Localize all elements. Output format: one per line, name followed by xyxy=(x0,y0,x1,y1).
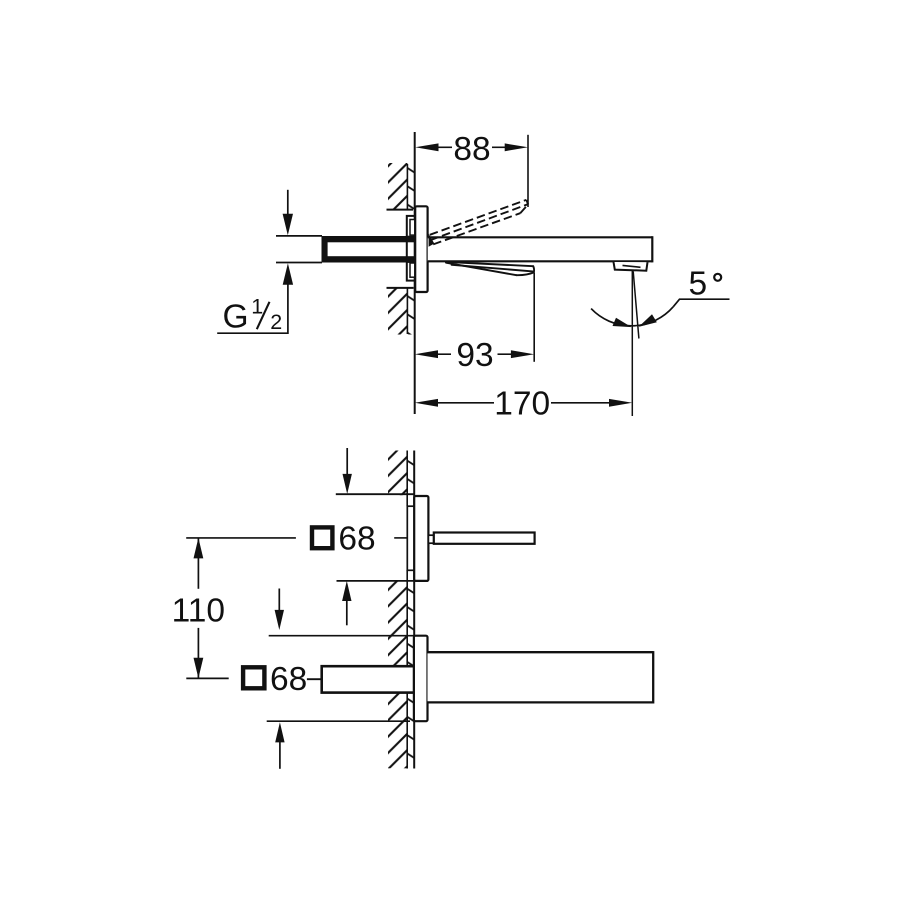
mixer lever stem xyxy=(428,535,433,543)
small arrow above spout plate xyxy=(278,589,280,611)
110 arrows xyxy=(194,538,204,559)
wall inner line sections xyxy=(406,451,408,769)
small arrow above mixer plate xyxy=(346,448,348,475)
handle raised position (dashed) xyxy=(430,200,528,245)
reference line top of spout plate xyxy=(269,635,414,637)
small arrow below spout plate xyxy=(275,722,284,742)
handle lowered position (solid) xyxy=(446,262,534,275)
wall hatch upper section xyxy=(388,163,415,210)
spout body (plan view) xyxy=(428,651,654,703)
wall hatch section B xyxy=(388,581,414,665)
square symbol spout xyxy=(243,667,264,688)
wall hatch lower section xyxy=(388,288,415,335)
G1/2 lower arrow with leader xyxy=(283,263,293,284)
dim 93 arrows xyxy=(415,350,438,358)
reference line bottom of spout plate xyxy=(267,720,410,722)
dim 88 line xyxy=(438,146,506,148)
dim 170 arrows xyxy=(415,399,438,407)
svg-text:2: 2 xyxy=(270,310,282,334)
spout escutcheon plate xyxy=(414,636,428,722)
spray direction vertical reference line xyxy=(631,271,633,416)
110 bottom tick xyxy=(186,677,228,679)
110 dim line upper segment xyxy=(197,538,199,589)
wall section boundary top xyxy=(387,209,414,211)
dim 88 right extension line xyxy=(527,135,529,207)
dim 93 line xyxy=(438,353,511,355)
svg-text:170: 170 xyxy=(494,385,550,422)
G1/2 threaded nipple xyxy=(322,236,415,263)
supply pipe thin lines xyxy=(276,235,322,237)
wall inner line upper xyxy=(406,164,408,210)
svg-text:5: 5 xyxy=(689,266,708,303)
handle pivot at plate xyxy=(429,234,435,247)
mixer centerline left xyxy=(186,537,296,539)
110 dim line lower segment xyxy=(197,628,199,678)
reference line bottom of mixer plate xyxy=(337,580,429,582)
5 degree leader line xyxy=(673,299,729,307)
dim 170 line xyxy=(438,402,609,404)
leader from 68 to spout xyxy=(307,678,321,680)
mixer in-wall body xyxy=(407,506,414,570)
wall inner line lower xyxy=(406,288,408,334)
svg-text:G: G xyxy=(223,299,249,336)
svg-text:68: 68 xyxy=(338,520,375,557)
svg-text:1: 1 xyxy=(251,295,263,319)
wall face line xyxy=(413,451,415,769)
dim 93 right extension line (handle end) xyxy=(533,273,535,362)
square symbol mixer xyxy=(312,527,332,548)
small arrow below mixer plate xyxy=(342,581,351,601)
mixer escutcheon plate xyxy=(414,496,428,581)
spray direction 5 degree line xyxy=(633,271,639,338)
svg-text:93: 93 xyxy=(456,337,493,374)
G1/2 upper arrow xyxy=(287,190,289,215)
spout shank in wall xyxy=(322,666,415,692)
escutcheon wall plate (side view) xyxy=(415,206,427,292)
svg-text:110: 110 xyxy=(172,592,225,629)
wall hatch section C xyxy=(388,693,414,768)
wall face line xyxy=(414,132,416,414)
spout body (side view) xyxy=(428,236,653,262)
dim 88 arrows xyxy=(415,143,438,151)
aerator xyxy=(614,262,648,271)
svg-text:88: 88 xyxy=(453,131,490,168)
wall section boundary bottom xyxy=(387,287,414,289)
angle arc xyxy=(591,307,673,326)
wall hatch section A xyxy=(388,451,414,496)
svg-text:68: 68 xyxy=(270,661,307,698)
reference line top of mixer plate xyxy=(336,493,415,495)
mixer lever bar xyxy=(434,533,535,544)
mixer centerline right xyxy=(394,537,407,539)
arc arrowhead left xyxy=(613,318,632,327)
in-wall bracket body xyxy=(407,216,415,281)
arc arrowhead right xyxy=(639,314,657,327)
